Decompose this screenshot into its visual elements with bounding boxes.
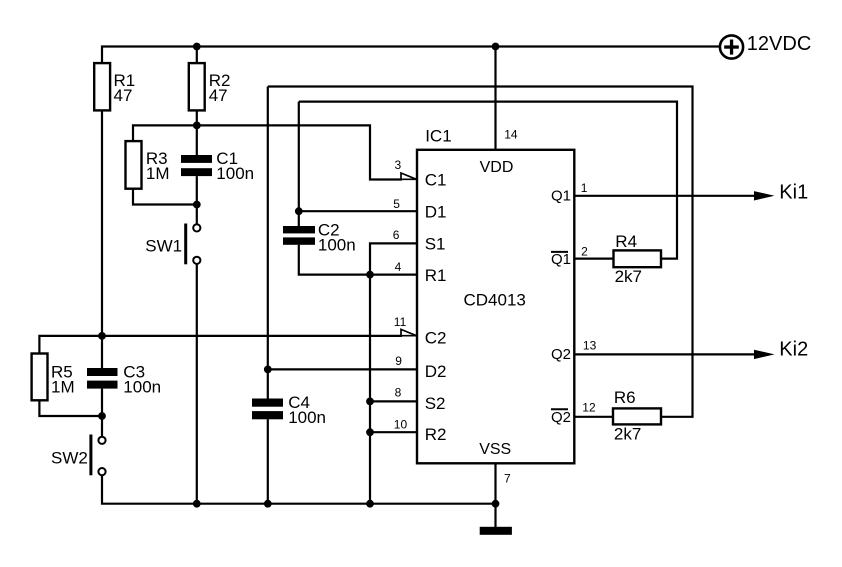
svg-text:R4: R4 <box>615 232 637 251</box>
svg-text:D2: D2 <box>425 362 447 381</box>
junction node pin 8 <box>366 398 374 406</box>
svg-text:10: 10 <box>394 418 408 432</box>
svg-text:5: 5 <box>393 197 400 211</box>
svg-text:D1: D1 <box>425 202 447 221</box>
resistor R4 <box>614 250 662 267</box>
wire bottom ground bus <box>102 475 496 504</box>
power supply 12VDC terminal <box>720 35 743 58</box>
resistor R1 <box>94 63 110 110</box>
junction node C3/R5/SW2 <box>98 412 106 420</box>
svg-text:SW1: SW1 <box>145 237 182 256</box>
wire pin 5 D1 <box>299 210 417 212</box>
junction node R1/R5/C3/pin11 <box>98 332 106 340</box>
svg-text:IC1: IC1 <box>425 127 451 146</box>
svg-text:100n: 100n <box>318 236 356 255</box>
svg-text:8: 8 <box>395 385 402 399</box>
junction node R2 top <box>193 43 201 51</box>
feedback wire Q1bar to D1 inner loop <box>299 102 677 259</box>
IC IC1 CD4013 dual D flip-flop body <box>417 150 574 464</box>
arrow Ki1 <box>754 191 775 200</box>
svg-text:12VDC: 12VDC <box>747 33 811 55</box>
junction node pin 10 <box>366 428 374 436</box>
wire pin 7 VSS to ground <box>494 463 496 527</box>
svg-text:100n: 100n <box>123 377 161 396</box>
junction node bus/pin7 <box>492 500 500 508</box>
wire pin 2 Q1bar to R4 <box>574 258 613 260</box>
wire pin 6 S1 and feeder vertical <box>370 243 417 503</box>
svg-text:2k7: 2k7 <box>615 267 642 286</box>
wire R2 bottom to C1 top <box>196 110 198 155</box>
svg-text:VSS: VSS <box>479 441 511 458</box>
junction node VDD pin 14 <box>492 43 500 51</box>
switch SW1 <box>184 224 187 265</box>
svg-text:4: 4 <box>395 260 402 274</box>
wire C4 upper leg <box>267 87 269 399</box>
wire pin 12 Q2bar to R6 <box>574 416 613 418</box>
svg-text:2: 2 <box>581 245 588 259</box>
junction node C1/R3/SW1 <box>193 201 201 209</box>
ground <box>480 527 512 535</box>
svg-text:Q1: Q1 <box>551 251 571 268</box>
svg-text:12: 12 <box>582 401 596 415</box>
svg-text:47: 47 <box>114 86 133 105</box>
capacitor C1 <box>181 155 212 163</box>
capacitor C2 <box>283 226 315 233</box>
switch SW2 <box>89 435 92 476</box>
junction node R2/R3/C1 <box>193 122 201 130</box>
junction node C4 top / D2 <box>264 366 272 374</box>
svg-text:R2: R2 <box>425 425 447 444</box>
svg-text:Ki2: Ki2 <box>779 338 808 360</box>
wire SW1 bottom leg <box>196 264 198 504</box>
svg-text:1M: 1M <box>146 164 170 183</box>
svg-text:VDD: VDD <box>480 159 514 176</box>
wire C2 bottom to pin 4 R1 <box>299 245 417 275</box>
resistor R6 <box>613 408 661 424</box>
clock triangle pin 3 <box>401 173 416 179</box>
junction node bus/SW1 <box>193 500 201 508</box>
svg-text:C2: C2 <box>425 328 447 347</box>
svg-text:Q1: Q1 <box>551 188 571 205</box>
clock triangle pin 11 <box>401 329 416 335</box>
wire R3 top link to clock pin 3 <box>133 125 402 179</box>
wire R3 bottom link <box>133 189 197 205</box>
wire top supply bus <box>102 47 720 65</box>
wire C2 upper leg <box>298 102 300 226</box>
svg-text:S1: S1 <box>425 235 446 254</box>
svg-text:47: 47 <box>209 86 228 105</box>
wire C4 bottom leg <box>267 419 269 503</box>
svg-text:11: 11 <box>394 315 407 329</box>
svg-text:1M: 1M <box>51 377 75 396</box>
resistor R3 <box>126 141 142 189</box>
feedback wire Q2bar to D2 outer loop <box>268 87 693 417</box>
junction node bus/feeder <box>366 500 374 508</box>
svg-text:SW2: SW2 <box>51 449 88 468</box>
wire pin 10 R2 <box>370 431 417 433</box>
svg-text:R6: R6 <box>614 388 636 407</box>
svg-text:2k7: 2k7 <box>614 425 641 444</box>
svg-text:C1: C1 <box>425 171 447 190</box>
svg-text:Ki1: Ki1 <box>779 182 808 204</box>
junction node bus/C4 <box>264 500 272 508</box>
svg-text:6: 6 <box>393 228 400 242</box>
wire R1 bottom leg <box>101 110 103 336</box>
svg-text:1: 1 <box>581 181 588 195</box>
svg-text:CD4013: CD4013 <box>464 291 526 310</box>
svg-text:14: 14 <box>504 128 518 142</box>
junction node pin4/S-R feeder <box>366 271 374 279</box>
capacitor C4 <box>252 399 283 407</box>
resistor R5 <box>32 354 48 401</box>
wire C1 bottom to SW1 <box>196 176 198 224</box>
wire pin 11 C2 clock from R5/C3 node <box>39 336 402 354</box>
wire pin 1 Q1 output <box>574 195 756 197</box>
svg-text:7: 7 <box>504 472 511 486</box>
svg-text:13: 13 <box>583 339 597 353</box>
wire R2 top stub <box>196 47 198 64</box>
svg-text:3: 3 <box>395 158 402 172</box>
svg-text:Q2: Q2 <box>551 346 571 363</box>
svg-text:9: 9 <box>395 354 402 368</box>
wire R5 bottom link <box>39 400 102 416</box>
svg-text:Q2: Q2 <box>551 409 571 426</box>
arrow Ki2 <box>754 350 775 359</box>
wire pin 8 S2 <box>370 400 417 402</box>
wire pin 13 Q2 output <box>574 353 756 355</box>
svg-text:S2: S2 <box>425 394 446 413</box>
svg-text:100n: 100n <box>288 408 326 427</box>
capacitor C3 <box>87 368 118 376</box>
wire C3 upper leg <box>101 336 103 368</box>
resistor R2 <box>189 63 205 110</box>
wire pin 14 VDD <box>494 47 496 150</box>
junction node C2 top / D1 <box>295 207 303 215</box>
svg-text:100n: 100n <box>216 164 254 183</box>
svg-text:R1: R1 <box>425 266 447 285</box>
wire pin 9 D2 <box>268 368 417 370</box>
wire C3 bottom to SW2 <box>101 389 103 437</box>
